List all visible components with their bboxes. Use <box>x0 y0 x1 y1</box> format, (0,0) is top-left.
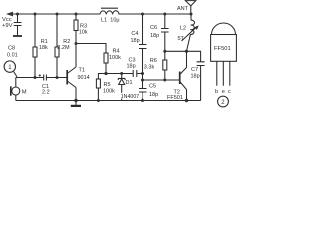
wire T1 emitter down <box>75 88 77 101</box>
node circled 1 <box>4 61 15 72</box>
wire RF line to C3 <box>106 73 133 75</box>
pins of FF501 package <box>217 62 230 86</box>
node junction dots on top rail <box>16 13 193 16</box>
svg-text:9014: 9014 <box>78 75 90 81</box>
svg-text:R2: R2 <box>63 39 70 45</box>
svg-text:100k: 100k <box>109 55 121 61</box>
resistor R6 3.3k <box>164 51 166 60</box>
ground symbol <box>75 101 77 106</box>
node dot collector <box>75 42 78 45</box>
svg-text:2.2M: 2.2M <box>57 45 70 51</box>
svg-text:T1: T1 <box>79 68 85 74</box>
wire Vcc top rail left segment <box>8 13 100 15</box>
svg-text:10μ: 10μ <box>110 17 119 23</box>
capacitor C4 18p <box>139 14 147 74</box>
capacitor C5 18p <box>139 80 147 101</box>
wire T2 base line <box>143 79 180 81</box>
svg-text:R5: R5 <box>104 82 111 88</box>
svg-text:C4: C4 <box>131 31 138 37</box>
wire collector to R4 <box>76 44 106 54</box>
svg-text:18k: 18k <box>39 45 48 51</box>
svg-text:18p: 18p <box>150 33 159 39</box>
transistor T1 9014 <box>66 70 68 85</box>
capacitor C6 18p <box>161 14 169 51</box>
svg-text:ANT: ANT <box>177 6 189 12</box>
arrow through L2 <box>182 27 198 42</box>
resistor R1 18k <box>34 14 36 47</box>
svg-text:18p: 18p <box>149 92 158 98</box>
FF501 package outline <box>211 35 237 62</box>
node circled 2 <box>218 96 229 107</box>
node dot D1 <box>120 72 123 75</box>
svg-text:C8: C8 <box>8 46 15 52</box>
node dot emitter/ground rail <box>74 99 77 102</box>
node dot R2/audio <box>56 76 59 79</box>
inductor L1 <box>100 11 119 15</box>
svg-text:R1: R1 <box>41 39 48 45</box>
svg-text:M: M <box>22 90 27 96</box>
svg-text:FF501: FF501 <box>214 46 231 52</box>
svg-text:e: e <box>222 89 225 95</box>
svg-text:18p: 18p <box>131 38 140 44</box>
svg-text:1N4007: 1N4007 <box>121 94 140 100</box>
node dot R1/audio <box>34 76 37 79</box>
svg-text:L1: L1 <box>101 17 107 23</box>
inductor L2 5T <box>190 14 192 20</box>
svg-text:R3: R3 <box>80 23 87 29</box>
svg-text:10k: 10k <box>79 29 88 35</box>
node dot base wire <box>141 79 144 82</box>
svg-text:R6: R6 <box>150 58 157 64</box>
diode D1 1N4007 varactor <box>121 74 123 79</box>
capacitor C8 <box>14 14 22 35</box>
node Vcc arrow <box>6 12 13 17</box>
node dot R6 bottom <box>163 79 166 82</box>
node dot T2 emitter <box>185 99 188 102</box>
node dot R4 bottom <box>104 72 107 75</box>
capacitor C3 18p <box>133 70 137 77</box>
wire jog down on C4/C5 column <box>142 74 144 81</box>
svg-text:0.01: 0.01 <box>7 53 18 59</box>
svg-text:18p: 18p <box>191 74 200 80</box>
svg-text:R4: R4 <box>113 49 120 55</box>
svg-text:C6: C6 <box>150 25 157 31</box>
svg-text:L2: L2 <box>180 26 186 32</box>
wire audio line mic to C1 <box>16 77 44 79</box>
svg-text:18p: 18p <box>127 64 136 70</box>
wire mic top to audio wire <box>15 78 17 88</box>
microphone M <box>12 87 20 95</box>
svg-text:b: b <box>215 89 218 95</box>
node dot C6/R6 <box>163 50 166 53</box>
svg-text:100k: 100k <box>103 89 115 95</box>
wire bottom ground rail <box>16 100 201 102</box>
svg-text:C5: C5 <box>149 84 156 90</box>
node dot T2 collector <box>185 50 188 53</box>
node dot R5 bottom rail <box>97 99 100 102</box>
wire C1 to T1 base <box>46 77 66 79</box>
transistor T2 FF501 <box>179 72 181 85</box>
svg-text:5T: 5T <box>178 36 185 42</box>
capacitor C1 2.2 <box>44 75 47 81</box>
svg-text:2.2: 2.2 <box>42 90 50 96</box>
resistor R2 2.2M <box>56 14 58 47</box>
svg-text:C7: C7 <box>191 67 198 73</box>
antenna ANT <box>185 1 195 6</box>
wire RF line left jog to R5 <box>98 74 106 80</box>
node dot C5 bottom rail <box>141 99 144 102</box>
capacitor C7 18p <box>197 62 205 101</box>
ground below C8 <box>13 35 22 37</box>
resistor R4 100k <box>104 53 108 63</box>
label 1N4007 <box>121 93 143 99</box>
svg-text:3.3k: 3.3k <box>144 64 155 70</box>
resistor R5 100k <box>96 79 100 88</box>
wire T1 collector up <box>75 44 77 68</box>
svg-text:c: c <box>228 89 231 95</box>
svg-text:+9V: +9V <box>2 23 13 29</box>
svg-text:D1: D1 <box>126 80 133 86</box>
resistor R3 10k <box>75 14 77 20</box>
svg-text:FF501: FF501 <box>167 95 183 101</box>
wire C6 node to collector node and C7 <box>165 51 201 61</box>
wire Vcc top rail right segment <box>119 13 191 15</box>
node dot C3/C4 <box>141 72 144 75</box>
wire mic bottom to ground rail <box>15 95 17 101</box>
wire C3 right to jog node <box>137 73 143 75</box>
